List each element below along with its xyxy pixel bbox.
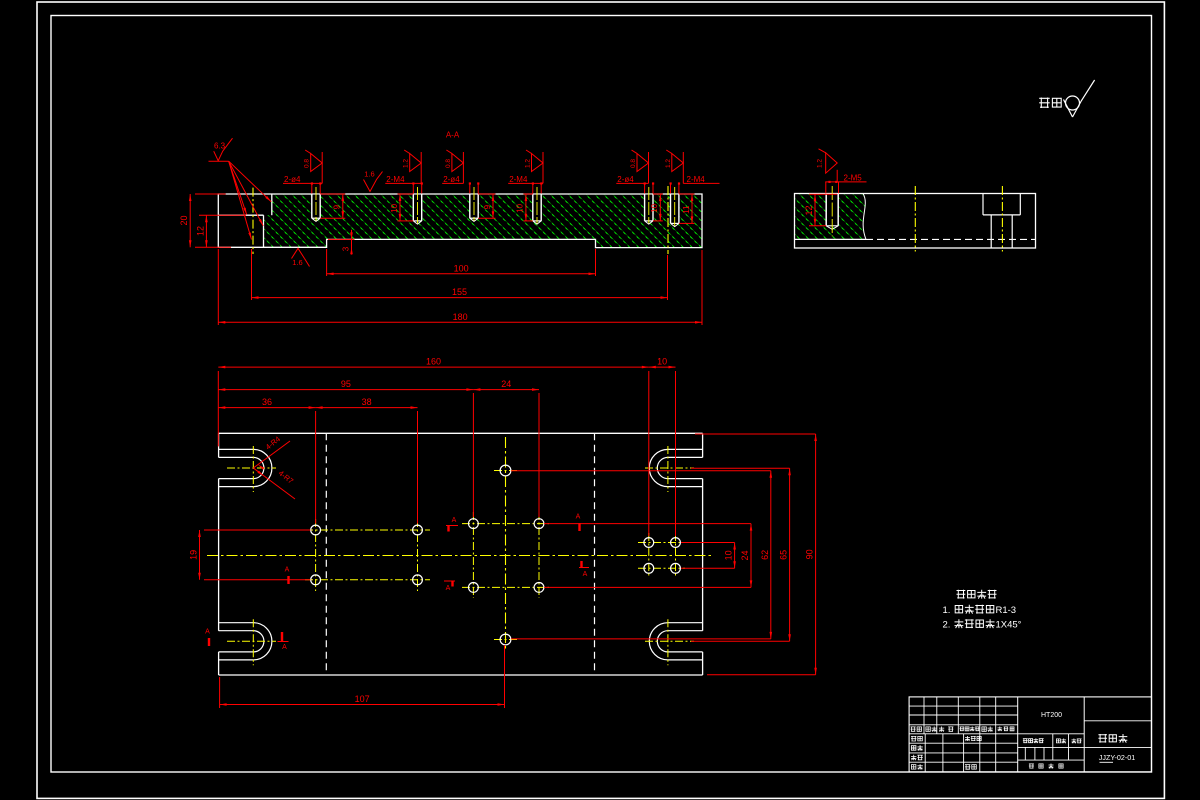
svg-text:1X45°: 1X45° xyxy=(996,620,1022,631)
svg-text:A-A: A-A xyxy=(446,131,460,140)
svg-text:A: A xyxy=(452,517,457,524)
svg-text:24: 24 xyxy=(501,379,511,389)
svg-text:A: A xyxy=(576,514,581,521)
svg-text:2-ø4: 2-ø4 xyxy=(617,175,634,184)
svg-text:JJZY-02-01: JJZY-02-01 xyxy=(1099,753,1136,762)
svg-text:A: A xyxy=(285,567,290,574)
svg-text:A: A xyxy=(583,571,588,578)
svg-text:1.2: 1.2 xyxy=(525,159,532,168)
svg-text:R1-3: R1-3 xyxy=(996,605,1017,616)
svg-text:2-ø4: 2-ø4 xyxy=(284,175,301,184)
svg-text:1.2: 1.2 xyxy=(403,159,410,168)
svg-text:2-M4: 2-M4 xyxy=(386,175,405,184)
svg-text:10: 10 xyxy=(724,550,734,560)
svg-text:10: 10 xyxy=(650,203,659,212)
svg-text:19: 19 xyxy=(189,550,199,560)
svg-text:0.8: 0.8 xyxy=(445,159,452,168)
svg-text:A: A xyxy=(205,629,210,636)
svg-text:HT200: HT200 xyxy=(1041,712,1062,719)
svg-text:20: 20 xyxy=(179,215,189,225)
svg-text:10: 10 xyxy=(390,203,399,212)
svg-text:1.2: 1.2 xyxy=(817,159,824,168)
svg-text:1.6: 1.6 xyxy=(292,258,302,267)
svg-text:1.: 1. xyxy=(943,605,951,616)
svg-text:38: 38 xyxy=(362,397,372,407)
svg-text:3: 3 xyxy=(341,246,350,251)
svg-text:62: 62 xyxy=(760,550,770,560)
svg-text:10: 10 xyxy=(657,357,667,367)
svg-text:2-ø4: 2-ø4 xyxy=(443,175,460,184)
svg-text:24: 24 xyxy=(740,550,750,560)
svg-text:107: 107 xyxy=(355,694,370,704)
svg-text:11: 11 xyxy=(682,205,691,214)
svg-text:180: 180 xyxy=(453,312,468,322)
svg-text:95: 95 xyxy=(341,379,351,389)
svg-text:9: 9 xyxy=(483,204,492,209)
svg-text:65: 65 xyxy=(779,550,789,560)
svg-text:0.8: 0.8 xyxy=(304,159,311,168)
svg-text:2-M4: 2-M4 xyxy=(687,175,706,184)
svg-text:A: A xyxy=(446,585,451,592)
svg-text:36: 36 xyxy=(262,397,272,407)
svg-text:1.2: 1.2 xyxy=(665,159,672,168)
svg-text:12: 12 xyxy=(804,205,814,215)
svg-text:155: 155 xyxy=(452,287,467,297)
svg-text:A: A xyxy=(282,644,287,651)
svg-text:9: 9 xyxy=(333,204,342,209)
svg-text:0.8: 0.8 xyxy=(630,159,637,168)
svg-text:160: 160 xyxy=(426,357,441,367)
svg-text:2-M4: 2-M4 xyxy=(509,175,528,184)
svg-text:2.: 2. xyxy=(943,620,951,631)
svg-text:12: 12 xyxy=(195,226,205,236)
svg-text:100: 100 xyxy=(454,263,469,273)
svg-text:1.6: 1.6 xyxy=(364,170,374,179)
svg-text:2-M5: 2-M5 xyxy=(844,173,863,182)
svg-text:10: 10 xyxy=(516,203,525,212)
svg-text:90: 90 xyxy=(805,549,815,559)
